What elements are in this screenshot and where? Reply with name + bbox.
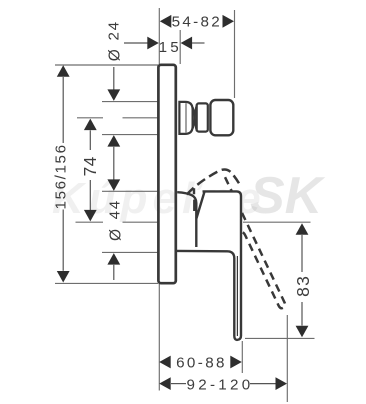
extension line 15-right (179, 30, 181, 64)
dimension 74 (84, 119, 97, 131)
svg-text:44: 44 (107, 199, 124, 219)
centerline lever axis right (243, 221, 311, 223)
centerline lever axis left (76, 221, 104, 223)
open lever dashed front edge (193, 188, 196, 211)
extension line plate front, bottom (158, 284, 160, 391)
svg-text:60-88: 60-88 (176, 354, 227, 371)
open lever dashed outline (lever rotated) (213, 177, 287, 312)
svg-text:92-120: 92-120 (186, 376, 253, 393)
dimension 92-120 (159, 377, 171, 390)
extension line plate bottom, to left (55, 282, 158, 284)
svg-text:15: 15 (159, 39, 182, 56)
knob waist right arc (193, 108, 195, 129)
svg-text:54-82: 54-82 (172, 14, 222, 31)
lever hub and grip (177, 191, 242, 340)
grip inner line (236, 256, 238, 336)
centerline knob axis (77, 117, 103, 119)
extension line lever escutcheon bottom (102, 251, 158, 253)
wall plate (158, 65, 175, 283)
extension line 54-82 right (knob face) (234, 10, 236, 98)
lever body white mask (196, 191, 241, 340)
extension line knob bottom (102, 134, 158, 136)
lever escutcheon (177, 192, 196, 247)
open lever dashed top edge arc (187, 169, 241, 194)
dimension Ø 44 (107, 179, 120, 191)
svg-text:Ø: Ø (107, 49, 124, 61)
extension line plate top, to left (55, 64, 158, 66)
knob main body (210, 100, 233, 135)
extension line grip right, bottom (241, 341, 243, 373)
dimension 15 (124, 42, 148, 44)
svg-text:156/156: 156/156 (53, 143, 70, 209)
dimension 156/156 (57, 65, 70, 77)
dimension 60-88 (159, 356, 171, 369)
extension line lever escutcheon top (102, 190, 158, 192)
extension line knob top (102, 101, 158, 103)
svg-text:24: 24 (106, 20, 123, 40)
svg-text:SK: SK (250, 167, 326, 225)
knob neck inner line (185, 103, 187, 133)
svg-text:74: 74 (80, 156, 100, 176)
extension line open-lever tip (286, 315, 288, 402)
extension line left vertical (plate front, top) (158, 8, 160, 64)
knob mid cylinder (197, 103, 208, 131)
svg-text:83: 83 (293, 275, 313, 297)
knob waist left arc (195, 105, 197, 131)
dimension 83 (296, 223, 309, 235)
svg-text:Ø: Ø (108, 229, 125, 241)
knob neck escutcheon (179, 102, 192, 134)
dimension 54-82 (160, 15, 234, 28)
extension line grip bottom, to right (245, 337, 315, 339)
